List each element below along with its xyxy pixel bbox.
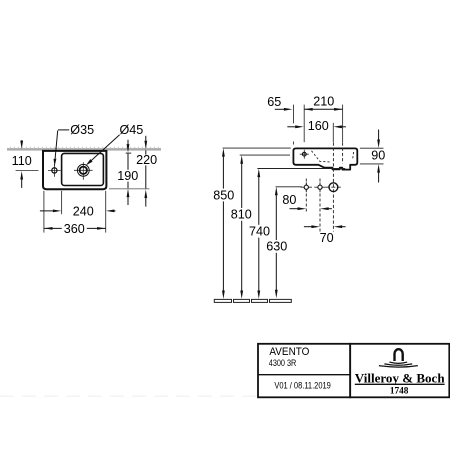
svg-text:Ø35: Ø35 — [70, 123, 94, 137]
tap hole circle (plan) — [52, 168, 57, 173]
fixing hole 1 (side) — [301, 182, 312, 192]
version date — [274, 381, 331, 391]
Villeroy & Boch wordmark — [355, 371, 445, 385]
extension line 630 — [276, 186, 302, 188]
dimension 810 — [231, 155, 252, 299]
founding year 1748 — [390, 385, 409, 395]
drain inner circle (plan) — [80, 167, 87, 174]
svg-text:Villeroy & Boch: Villeroy & Boch — [355, 371, 445, 385]
svg-text:360: 360 — [64, 222, 85, 236]
svg-text:4300 3R: 4300 3R — [269, 358, 297, 368]
dimension 360 (overall width) — [44, 222, 106, 236]
dimension 90 (basin height) — [360, 130, 385, 183]
extension line E3 (drain centerline top) — [332, 123, 334, 142]
svg-text:160: 160 — [308, 119, 329, 133]
dimension 240 (bowl width) — [40, 205, 116, 219]
svg-text:740: 740 — [249, 225, 270, 239]
label D45 with leader arrow — [86, 123, 143, 165]
dashed centerline through fixing hole 1 — [305, 179, 307, 213]
model number 4300 3R — [269, 358, 297, 368]
title block right box — [350, 344, 449, 398]
svg-text:210: 210 — [313, 95, 334, 109]
extension line basin front edge (plan) — [109, 188, 150, 190]
svg-text:80: 80 — [282, 193, 296, 207]
svg-text:810: 810 — [231, 208, 252, 222]
svg-text:V01 / 08.11.2019: V01 / 08.11.2019 — [274, 381, 331, 391]
model name AVENTO — [269, 346, 309, 358]
label D35 with leader arrow — [54, 123, 95, 166]
svg-text:Ø45: Ø45 — [119, 123, 143, 137]
dimension 220 (wall to front, plan) — [136, 136, 157, 207]
washbasin outer outline (plan view) — [43, 151, 106, 189]
svg-text:850: 850 — [213, 188, 234, 202]
extension line 740 (under basin) — [257, 168, 345, 170]
svg-text:65: 65 — [267, 95, 281, 109]
dimension 740 — [249, 169, 270, 299]
dimension 70 (hole to drain) — [304, 225, 346, 245]
ripple arcs — [379, 362, 418, 367]
tap hole centerline cross (plan) — [48, 164, 61, 177]
extension line E2 (tap centerline, side) — [303, 105, 305, 143]
dashed centerline through fixing hole 2 — [319, 179, 321, 232]
dimension 160 — [287, 119, 346, 133]
svg-text:1748: 1748 — [390, 385, 409, 395]
Villeroy & Boch arch symbol — [395, 349, 403, 361]
extension line 850 top — [223, 147, 291, 149]
drain hole (side) — [326, 183, 341, 192]
dashed bowl contour (side view) — [312, 151, 354, 162]
dimension 630 — [266, 187, 287, 298]
title block left box — [258, 344, 350, 398]
svg-text:90: 90 — [371, 149, 385, 163]
dimension 110 (wall to tap hole) — [12, 140, 39, 188]
fixing hole 2 (side) — [314, 182, 325, 192]
extension line 810 top — [240, 154, 290, 156]
dimension 80 (hole spacing) — [282, 193, 332, 210]
dimension 210 — [304, 95, 342, 111]
dashed centerline at 210 right through basin — [342, 143, 344, 164]
extension lines for 240 / 360 — [44, 191, 106, 233]
basin profile outline (side view) — [293, 148, 357, 169]
svg-text:630: 630 — [266, 240, 287, 254]
svg-text:240: 240 — [73, 205, 94, 219]
floor hatch band — [214, 299, 291, 302]
drain centerline cross (plan) — [74, 162, 93, 179]
svg-text:AVENTO: AVENTO — [269, 346, 309, 358]
dimension 190 (rim to front, plan) — [117, 140, 138, 205]
inner bowl outline (plan view) — [62, 153, 104, 185]
extension line E4 (210 right) — [342, 105, 344, 143]
extension line E1 (65 dim right) — [293, 105, 295, 147]
svg-text:110: 110 — [12, 154, 32, 168]
dashed centerline through drain (side) — [332, 143, 334, 232]
tap hole circle (side view) — [300, 150, 309, 159]
drain outer circle (plan) — [77, 164, 89, 176]
dimension 65 — [267, 95, 292, 111]
svg-text:220: 220 — [136, 153, 157, 167]
wall hatch line (plan view) — [7, 147, 161, 150]
faint page line bottom left — [0, 395, 257, 397]
dimension 850 — [213, 148, 234, 299]
svg-text:190: 190 — [117, 169, 138, 183]
svg-text:70: 70 — [320, 231, 334, 245]
